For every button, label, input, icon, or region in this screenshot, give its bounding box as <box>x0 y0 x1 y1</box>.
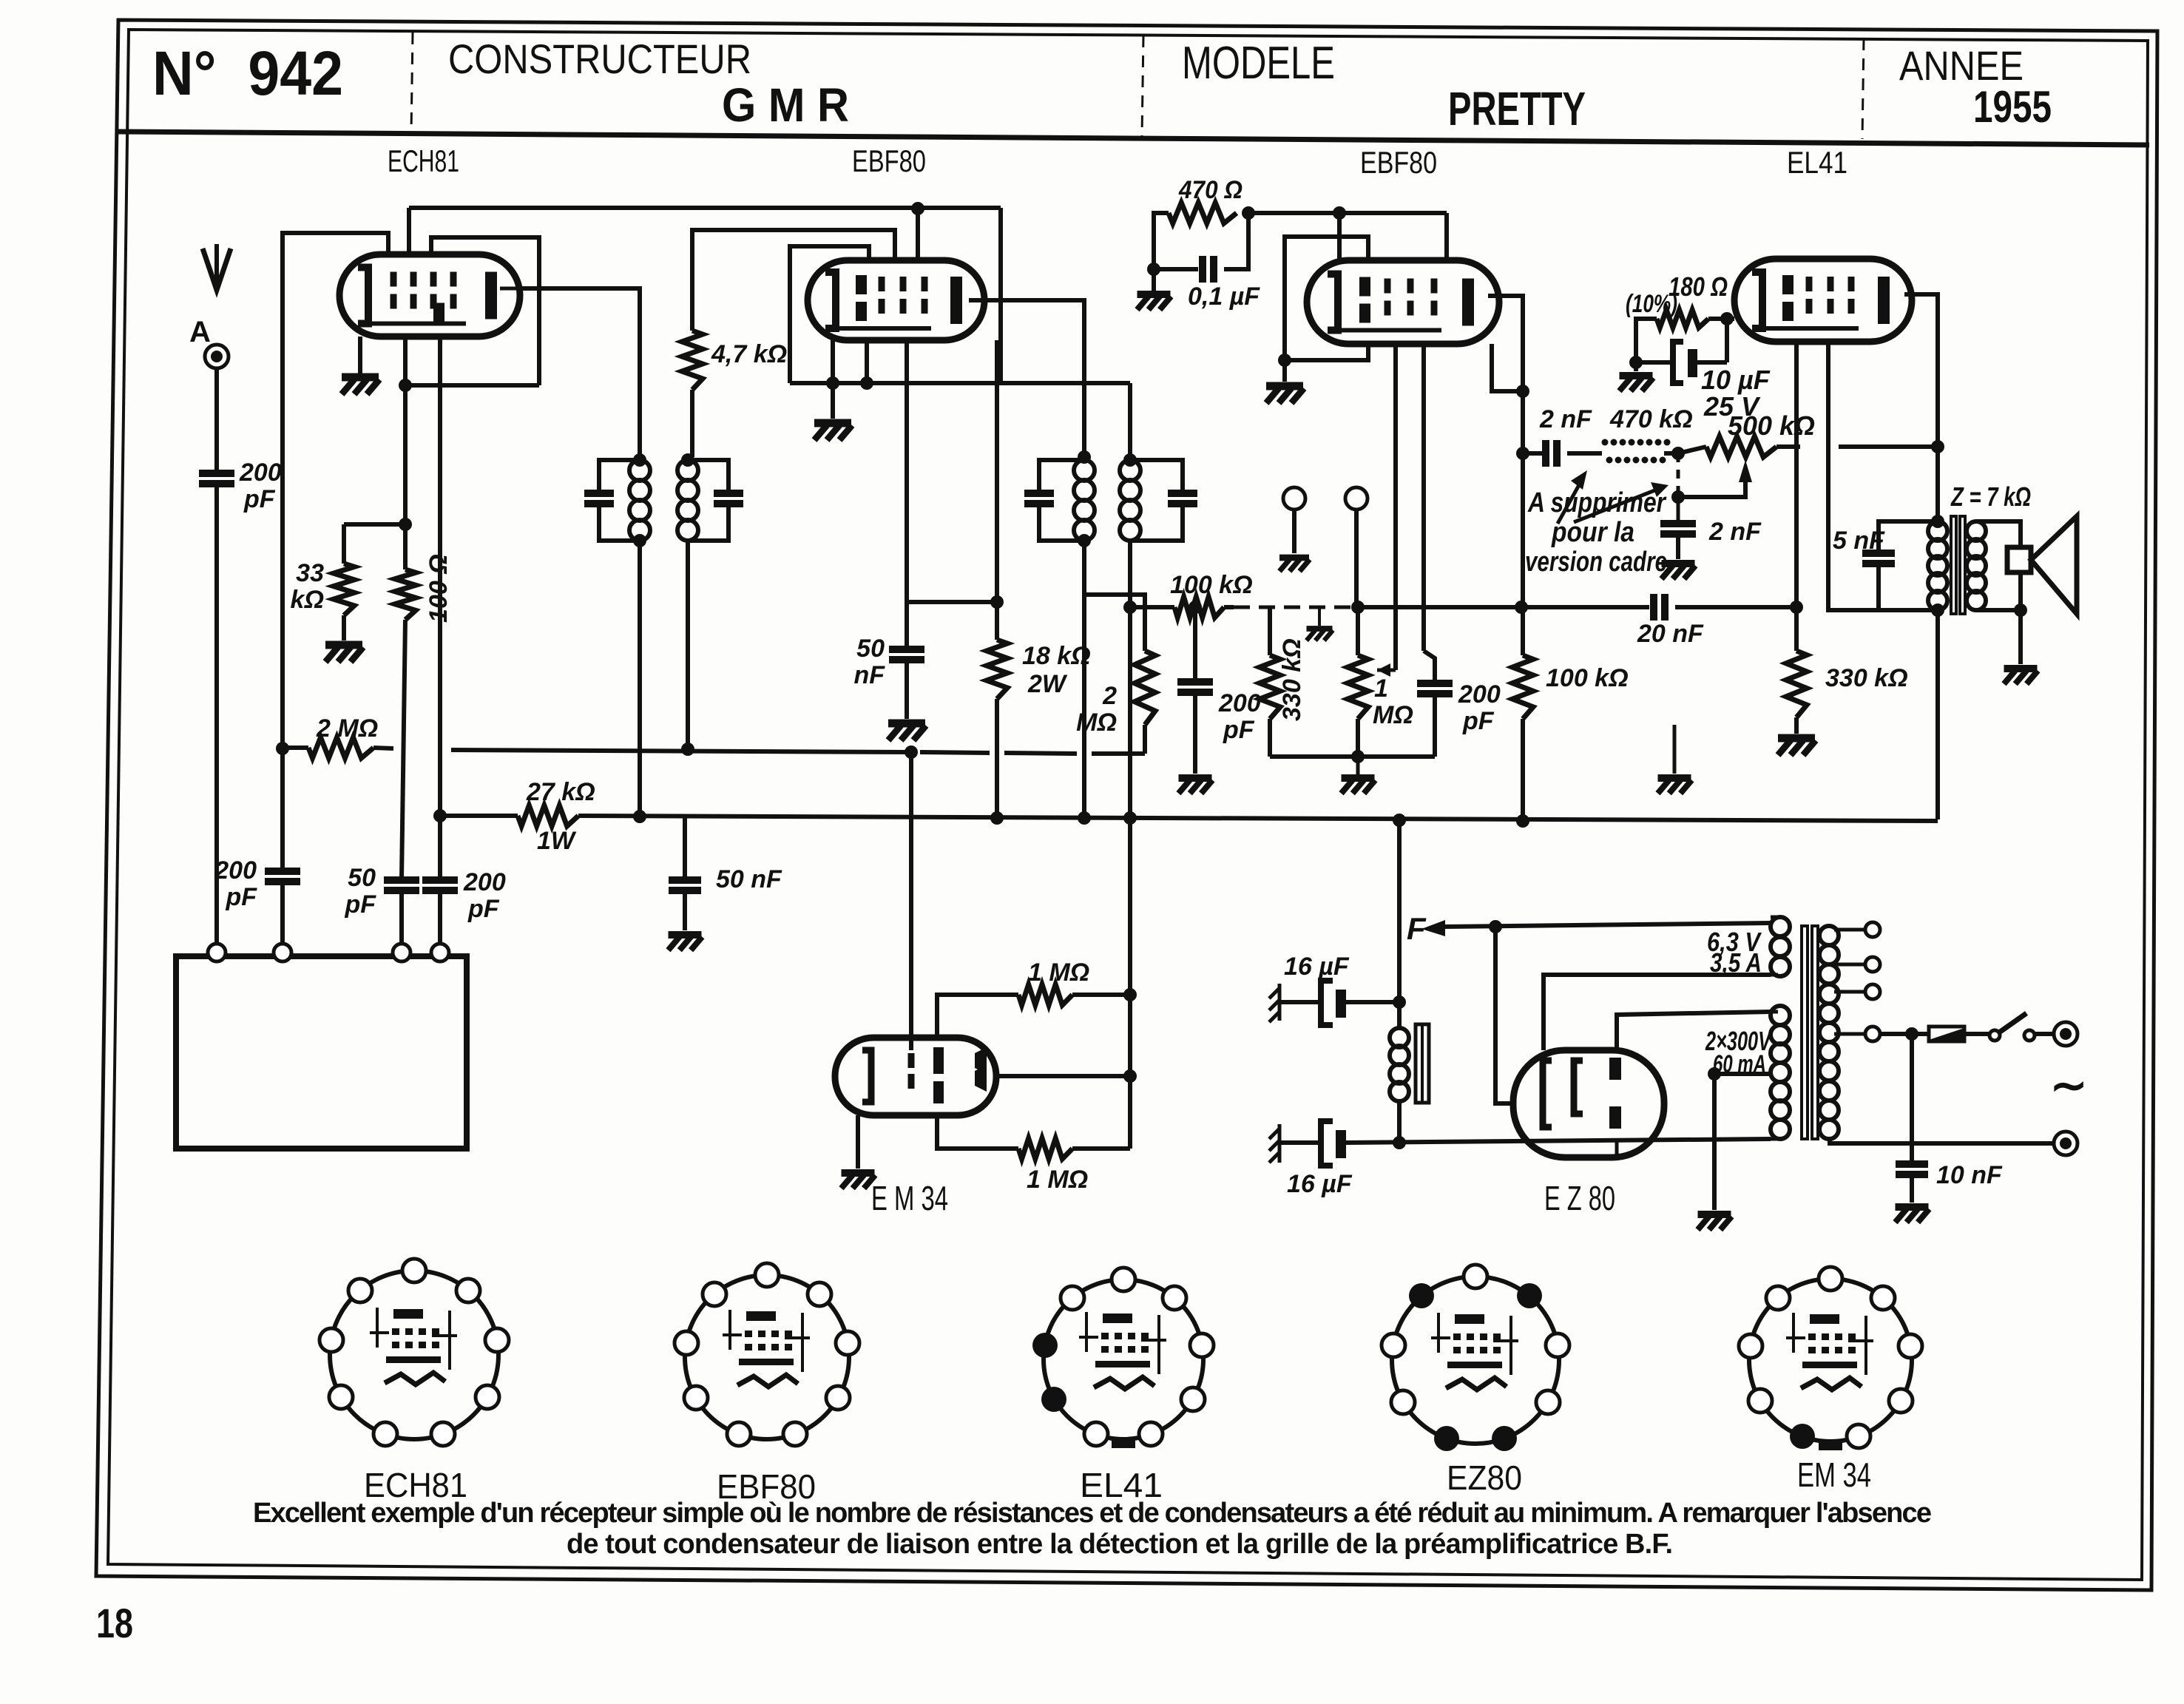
wire 2nF tone top <box>1677 497 1680 524</box>
switch ground stub <box>1318 607 1321 626</box>
wire 200pF diode top <box>1193 607 1197 682</box>
svg-text:200: 200 <box>463 868 506 896</box>
wire IFT1 sec top to 4.7k <box>690 390 694 457</box>
wire EBF80b left box <box>1285 237 1368 360</box>
coil OT secondary <box>1967 521 1986 541</box>
capacitor 50pF <box>384 876 419 884</box>
node choke bottom <box>1393 1136 1406 1149</box>
wire 47ohm left <box>1154 213 1169 269</box>
node OT top <box>1931 515 1944 528</box>
wire 10nF drop <box>1910 1034 1914 1163</box>
resistor 18k <box>987 640 1007 699</box>
wire OT sec bottom <box>1976 571 2021 610</box>
socket EBF80 <box>685 1275 849 1439</box>
node plate line tap <box>1931 440 1944 453</box>
svg-text:ECH81: ECH81 <box>388 143 459 178</box>
node bus EM34 <box>1123 811 1137 825</box>
coil OT primary <box>1928 521 1947 541</box>
wire EM34 grid drop <box>909 752 913 1050</box>
wire EM34 vertical <box>1128 818 1132 1149</box>
wire 33k tap <box>344 522 405 527</box>
svg-text:50: 50 <box>348 864 376 892</box>
wire speaker gnd <box>2018 610 2023 664</box>
wire 63V top <box>1771 916 1778 919</box>
node bus IFT2 <box>1078 811 1091 825</box>
node bus 18k <box>990 811 1004 825</box>
wire AVC mid2 <box>451 750 911 752</box>
svg-text:25 V: 25 V <box>1703 391 1761 422</box>
wire 200pF diode down <box>1193 692 1197 774</box>
IFT1 primary cap <box>584 490 614 497</box>
node 10nF tap <box>1905 1027 1918 1041</box>
svg-text:18: 18 <box>96 1600 133 1646</box>
wire AVC riser to 2M vert <box>1143 725 1147 754</box>
node 18k top <box>990 595 1004 609</box>
node EBF80b gnd <box>1278 354 1291 367</box>
node 47ohm left <box>1147 263 1160 276</box>
wire grid riser EBF80b <box>1337 213 1342 260</box>
wire AVC seg4 <box>1004 753 1077 754</box>
svg-text:50 nF: 50 nF <box>716 865 782 893</box>
wire IFT1 primary bottom to bus <box>638 541 642 816</box>
wall 16uF top <box>1269 984 1279 1022</box>
wire 4.7k top <box>692 230 895 331</box>
wire IFT1 secondary bottom to AVC <box>686 541 690 749</box>
ground speaker <box>2004 669 2038 684</box>
svg-text:N° 942: N° 942 <box>152 38 343 108</box>
svg-text:EZ80: EZ80 <box>1447 1458 1522 1497</box>
tap 2 <box>1834 963 1865 967</box>
svg-text:4,7 kΩ: 4,7 kΩ <box>711 340 787 368</box>
wire top bus right drop <box>998 208 1003 383</box>
socket EZ80 <box>1392 1277 1559 1444</box>
svg-text:2 nF: 2 nF <box>1708 518 1762 546</box>
capacitor 20nF <box>1650 594 1657 621</box>
resistor 2M horizontal <box>308 737 373 758</box>
OT core <box>1951 516 1956 614</box>
node 20nF right <box>1790 601 1803 614</box>
wire switch to terminal <box>2035 1032 2054 1036</box>
wire 2nF tone down <box>1676 534 1680 559</box>
ground EM34 <box>842 1173 876 1189</box>
wire g2 to top bus <box>407 208 411 254</box>
ground 330k EL41 <box>1778 738 1816 755</box>
node pot top <box>1351 601 1365 614</box>
wire g3 riser <box>431 237 539 385</box>
capacitor 10uF <box>1673 342 1683 383</box>
node wiper elbow <box>1671 490 1685 504</box>
svg-text:200: 200 <box>1458 680 1501 709</box>
antenna <box>203 248 231 290</box>
ground EBF80b <box>1266 386 1304 403</box>
capacitor 0.1uF <box>1199 256 1206 283</box>
coil IFT2 secondary <box>1120 460 1140 481</box>
wire pot bottom <box>1356 719 1360 757</box>
capacitor 200pF osc grid <box>265 868 300 875</box>
gang terminal 4 <box>431 944 449 961</box>
node choke top <box>1393 995 1406 1009</box>
wire 1M top left <box>937 995 1018 1038</box>
svg-text:1W: 1W <box>537 827 577 855</box>
svg-text:10 nF: 10 nF <box>1936 1161 2003 1189</box>
choke coil <box>1390 1028 1409 1047</box>
phono jack 2 <box>1345 487 1367 510</box>
svg-text:100 kΩ: 100 kΩ <box>1170 571 1253 599</box>
svg-text:330 kΩ: 330 kΩ <box>1825 664 1908 692</box>
svg-text:pF: pF <box>1462 707 1495 735</box>
svg-text:MΩ: MΩ <box>1373 701 1413 729</box>
wire EBF80b g1 down <box>1393 344 1398 670</box>
capacitor 2nF coupling <box>1542 440 1549 467</box>
ground 2nF tone <box>1662 564 1696 579</box>
wire B+ bus left <box>440 814 518 818</box>
socket ECH81 <box>330 1271 498 1439</box>
resistor 100 ohm <box>395 569 416 620</box>
svg-text:pF: pF <box>243 485 276 513</box>
capacitor 200pF antenna <box>199 470 234 477</box>
wire F line <box>1443 923 1771 927</box>
ECH81 interior anode wire <box>500 287 520 291</box>
resistor 4.7k <box>682 331 703 390</box>
wire osc grid cap to gang <box>280 882 285 947</box>
wire choke bottom <box>1397 1101 1402 1143</box>
tube ECH81 <box>339 254 520 337</box>
wire 180 right <box>1708 317 1734 321</box>
wire EZ80 heater top <box>1544 975 1771 1050</box>
wire top bus drop EBF80 grid <box>916 208 920 260</box>
node 47ohm right <box>1242 206 1255 220</box>
wire 330k bottom <box>1268 719 1272 757</box>
potentiometer 1M <box>1348 655 1368 719</box>
wire B+ bus <box>578 816 1938 821</box>
node 200pF diode <box>1189 601 1202 614</box>
tap 4 <box>1834 1032 1865 1036</box>
wire pot top stub <box>1356 607 1360 655</box>
node cathode net <box>1629 356 1643 369</box>
wire EL41 grid <box>1794 342 1799 607</box>
ground switch <box>1307 629 1333 640</box>
wire EBF80b anode out <box>1488 296 1523 607</box>
wire EBF80b gnd stub <box>1282 360 1287 382</box>
svg-text:Z = 7 kΩ: Z = 7 kΩ <box>1950 481 2031 512</box>
svg-text:470 kΩ: 470 kΩ <box>1609 405 1693 433</box>
wire pin stub <box>865 340 869 383</box>
wire EZ80 heater drop <box>1495 927 1513 1103</box>
header column divider 1 <box>411 33 413 133</box>
svg-text:PRETTY: PRETTY <box>1448 82 1586 135</box>
wire 16uF top left <box>1279 1000 1322 1004</box>
svg-text:∼: ∼ <box>2050 1061 2087 1110</box>
wire EM34 cathode <box>856 1115 860 1169</box>
IFT2 primary cap <box>1024 490 1054 497</box>
svg-text:E M 34: E M 34 <box>871 1179 948 1217</box>
wire 200pF af down <box>1433 694 1437 757</box>
wall 16uF bottom <box>1269 1124 1279 1163</box>
node EBF80a cathode bus <box>826 376 839 390</box>
svg-text:200: 200 <box>239 459 282 487</box>
IFT2 secondary box <box>1130 460 1183 493</box>
wire cathode drop <box>1725 319 1729 362</box>
svg-text:200: 200 <box>214 856 257 885</box>
dashed wiper line <box>1677 453 1680 497</box>
svg-text:470 Ω: 470 Ω <box>1178 176 1243 204</box>
ground 10nF <box>1896 1207 1930 1223</box>
wire g3 bracket <box>790 246 869 383</box>
resistor 500k <box>1706 436 1776 457</box>
wire det to pot line <box>1352 605 1521 609</box>
svg-text:100 kΩ: 100 kΩ <box>1546 664 1629 692</box>
svg-text:1: 1 <box>1374 674 1388 703</box>
svg-text:pF: pF <box>225 883 257 911</box>
capacitor 5nF <box>1862 550 1895 557</box>
svg-text:0,1 µF: 0,1 µF <box>1188 283 1260 311</box>
header column divider 3 <box>1862 38 1864 139</box>
fuse <box>1929 1027 1964 1041</box>
svg-text:Excellent exemple d'un récepte: Excellent exemple d'un récepteur simple … <box>253 1498 1932 1529</box>
coil IFT2 primary <box>1074 460 1095 481</box>
wire EBF80a anode out <box>969 300 1084 457</box>
wire PT bottom to terminal <box>1830 1139 2054 1143</box>
svg-text:10 µF: 10 µF <box>1701 365 1771 395</box>
wire AVC seg3 <box>920 752 990 753</box>
wire EL41 plate <box>1904 294 1938 447</box>
ground 50nF bus <box>669 935 703 950</box>
wire det to 100k <box>1130 605 1174 609</box>
ground 200pF diode <box>1179 778 1213 794</box>
node 100k detector <box>1123 601 1137 614</box>
svg-text:pF: pF <box>344 890 376 919</box>
header column divider 2 <box>1142 35 1143 136</box>
svg-text:EM 34: EM 34 <box>1797 1455 1871 1494</box>
node det right <box>1515 601 1528 614</box>
svg-text:33: 33 <box>296 559 324 587</box>
annotation arrow 2 <box>1574 490 1657 522</box>
svg-text:kΩ: kΩ <box>291 586 324 614</box>
node IFT1 primary bottom <box>633 534 646 547</box>
node 33k tap <box>399 518 412 531</box>
wire det node to 2nF <box>1523 451 1544 456</box>
svg-text:pF: pF <box>467 895 500 923</box>
wire cap 0.1 left <box>1154 267 1198 271</box>
node detector junction <box>1516 447 1529 460</box>
svg-text:50: 50 <box>856 635 885 663</box>
svg-text:F: F <box>1407 911 1427 946</box>
svg-text:nF: nF <box>853 661 885 689</box>
resistor 330k EL41 <box>1786 651 1807 717</box>
wire efter 100k <box>1224 605 1234 609</box>
svg-text:MODELE: MODELE <box>1182 38 1335 89</box>
svg-text:EBF80: EBF80 <box>852 143 926 178</box>
wire 50pF to gang <box>399 890 404 947</box>
wire antenna to cap <box>214 368 219 472</box>
node diode pin <box>1516 385 1529 398</box>
IFT1 secondary box <box>688 460 728 493</box>
tube EM34 <box>835 1038 996 1115</box>
antenna terminal <box>205 345 229 368</box>
wire 500k left <box>1678 447 1706 453</box>
node bus choke <box>1393 814 1406 827</box>
capacitor 50nF bus <box>669 876 701 884</box>
tube EL41 <box>1734 259 1912 342</box>
phono jack 1 <box>1283 487 1305 510</box>
tube EBF80 first <box>808 260 984 340</box>
PT winding HT <box>1771 1006 1790 1025</box>
capacitor 16uF top <box>1321 981 1333 1025</box>
ground EBF80a cathode <box>814 423 852 440</box>
node screen feed tap <box>1333 206 1346 220</box>
svg-text:16 µF: 16 µF <box>1287 1170 1353 1198</box>
node F drop <box>1489 920 1502 933</box>
svg-text:180 Ω: 180 Ω <box>1669 271 1728 302</box>
node AVC EM34 <box>905 745 918 759</box>
svg-text:1 MΩ: 1 MΩ <box>1027 1166 1088 1194</box>
capacitor 200pF af <box>1417 680 1453 687</box>
wire IFT2 secondary bottom down <box>1128 541 1132 818</box>
wire tap4 to fuse <box>1880 1032 1929 1036</box>
wire cap 0.1 right <box>1224 213 1248 269</box>
node 470k right <box>1671 447 1685 460</box>
node pot bottom <box>1351 750 1365 763</box>
wire EBF80a pin2 down <box>995 340 999 640</box>
annotation arrow 1 <box>1558 484 1580 524</box>
node 180 right <box>1720 312 1734 325</box>
choke core <box>1416 1024 1429 1103</box>
wire IFT2 primary bottom to bus <box>1082 541 1086 818</box>
node IFT2 secondary top <box>1123 453 1137 467</box>
PT core <box>1802 926 1808 1139</box>
ground mid <box>1658 778 1692 794</box>
resistor 100k af <box>1512 655 1533 719</box>
node IFT1 secondary top <box>681 453 694 467</box>
svg-text:1955: 1955 <box>1973 82 2052 132</box>
wire 330k top <box>1268 607 1272 655</box>
socket EL41 <box>1044 1279 1203 1439</box>
resistor 1M top <box>1018 984 1072 1005</box>
wire osc anode <box>438 337 442 879</box>
IFT1 secondary cap <box>714 490 743 497</box>
svg-text:de tout condensateur de liaiso: de tout condensateur de liaison entre la… <box>567 1529 1673 1560</box>
stub ground mid <box>1673 725 1677 774</box>
wire 1M top right <box>1072 993 1130 997</box>
wire 18k to bus <box>995 699 999 818</box>
node EM34 target <box>1123 1069 1137 1083</box>
wire EBF80a pin to 50nF node <box>905 340 909 648</box>
ground 180 <box>1620 376 1654 391</box>
wire 16uF top right <box>1345 1000 1399 1004</box>
svg-text:5 nF: 5 nF <box>1833 527 1885 555</box>
wire cathode-100ohm node <box>403 337 408 569</box>
node cathode 100ohm <box>399 379 412 392</box>
F arrowhead <box>1421 920 1445 936</box>
wire 330k EL41 top <box>1794 607 1799 651</box>
resistor 1M bottom <box>1018 1138 1072 1159</box>
wire osc anode cap to gang <box>438 890 442 947</box>
wire EZ80 anode bottom <box>1615 1140 1619 1157</box>
wire 5nF bottom <box>1879 564 1938 610</box>
tap 3 <box>1834 990 1865 994</box>
gang terminal 3 <box>393 944 410 961</box>
wire ECH81 anode to IFT1 <box>520 288 640 457</box>
wire EBF80b diode pin <box>1492 344 1523 391</box>
wire 10nF to gnd <box>1910 1174 1914 1203</box>
resistor 470k dotted <box>1602 439 1609 446</box>
resistor 2M vertical <box>1135 651 1155 725</box>
capacitor 50nF <box>889 646 924 653</box>
PT winding 63V <box>1771 917 1790 936</box>
wire 33k bottom <box>342 615 346 640</box>
svg-text:EBF80: EBF80 <box>1360 145 1437 180</box>
node bus 100k <box>1516 814 1529 828</box>
wire 1560 gnd stub <box>1152 269 1156 291</box>
wire pot bottom bus <box>1270 754 1435 759</box>
wire node to g3 drop <box>405 383 539 388</box>
ground 0.1uF <box>1137 294 1172 310</box>
resistor 27k <box>518 805 578 826</box>
wire 63V bottom <box>1771 973 1778 977</box>
wire g1 riser <box>283 233 388 869</box>
resistor 47 ohm <box>1169 203 1237 223</box>
capacitor 10nF <box>1896 1160 1928 1168</box>
ground 50nF <box>888 723 926 740</box>
wire 2nF to 470k <box>1567 451 1602 456</box>
ground center tap <box>1698 1214 1732 1230</box>
svg-text:16 µF: 16 µF <box>1284 953 1350 981</box>
wire AVC mid <box>373 748 393 748</box>
wire EL41 g2 to OT bottom <box>1828 342 1879 610</box>
wire 2M vert top <box>1084 595 1145 651</box>
wire pot gnd stub <box>1356 757 1360 775</box>
mains terminal top <box>2054 1022 2077 1046</box>
node OT bottom <box>1931 603 1944 617</box>
coil IFT1 secondary <box>677 460 698 481</box>
wire screen feed <box>1248 211 1447 215</box>
node IFT2 primary bottom <box>1078 534 1091 547</box>
svg-text:200: 200 <box>1218 689 1261 717</box>
node center tap <box>1708 1067 1721 1081</box>
wire 5nF top <box>1879 521 1938 553</box>
wire wiper elbow <box>1678 482 1745 497</box>
svg-text:330 kΩ: 330 kΩ <box>1278 638 1306 721</box>
node screen bus pin <box>860 376 873 390</box>
PT primary winding <box>1819 926 1839 945</box>
svg-text:CONSTRUCTEUR: CONSTRUCTEUR <box>448 35 751 82</box>
gang terminal 2 <box>274 944 291 961</box>
wire 33k top <box>342 524 346 564</box>
wire EM34 target wire <box>996 1074 1130 1078</box>
wire 1M bottom right <box>1072 1146 1130 1151</box>
wire 1M bottom left <box>937 1115 1018 1149</box>
resistor 180 ohm <box>1657 310 1708 328</box>
header separator line <box>118 132 2149 145</box>
IFT2 primary box <box>1039 460 1084 493</box>
wire HT bottom <box>1771 1137 1778 1141</box>
tuning gang box <box>176 956 467 1149</box>
ECH81 cathode wire <box>358 337 362 373</box>
node IFT1 secondary AVC <box>681 743 694 756</box>
node 1M top <box>1123 988 1137 1001</box>
capacitor 2nF tone <box>1660 520 1696 527</box>
ground pot bottom <box>1342 778 1376 794</box>
svg-text:27 kΩ: 27 kΩ <box>526 778 595 806</box>
wire AVC left <box>283 745 308 750</box>
svg-text:20 nF: 20 nF <box>1637 620 1704 648</box>
ground jack1 <box>1279 558 1310 571</box>
wire 500k to plate line <box>1839 444 1938 449</box>
EM34 interior <box>862 1050 871 1102</box>
resistor 100k detector <box>1174 597 1224 618</box>
wire EBF80a cathode ground <box>831 340 835 419</box>
wire fuse to switch <box>1964 1032 1989 1036</box>
